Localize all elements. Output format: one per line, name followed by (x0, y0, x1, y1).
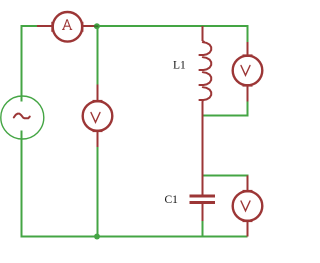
svg-text:L1: L1 (173, 60, 186, 72)
svg-text:C1: C1 (165, 194, 179, 206)
